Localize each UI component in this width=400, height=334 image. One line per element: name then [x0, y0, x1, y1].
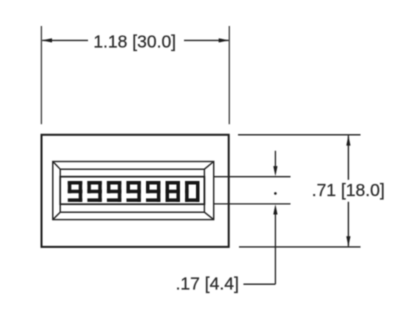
svg-text:.71 [18.0]: .71 [18.0] [312, 180, 385, 200]
svg-text:1.18 [30.0]: 1.18 [30.0] [93, 32, 176, 52]
svg-text:.17 [4.4]: .17 [4.4] [176, 273, 239, 293]
